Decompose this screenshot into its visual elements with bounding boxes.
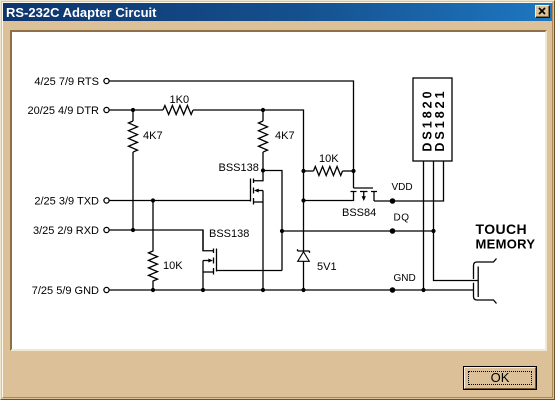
wire RTS to BSS84 gate <box>110 81 354 188</box>
svg-text:GND: GND <box>394 273 416 284</box>
transistor Q3 BSS84 <box>351 188 378 201</box>
svg-text:20/25 4/9 DTR: 20/25 4/9 DTR <box>27 105 99 117</box>
svg-text:BSS138: BSS138 <box>209 228 249 240</box>
wire left 4K7 top <box>132 110 134 121</box>
resistor R2 4K7 left <box>129 121 138 152</box>
node GND/zener <box>301 288 305 292</box>
transistor Q1 BSS138 upper <box>251 171 264 291</box>
node GND/pin1 <box>421 288 425 292</box>
wire right 4K7 top <box>262 110 264 121</box>
wire TXD to gate <box>110 200 251 202</box>
svg-text:2/25 3/9 TXD: 2/25 3/9 TXD <box>34 196 99 208</box>
node DQ dot <box>390 228 396 234</box>
touch memory outer contact <box>474 259 497 304</box>
terminal RTS <box>104 78 109 83</box>
terminal RXD <box>104 227 109 232</box>
close button <box>535 5 550 18</box>
node VDD dot <box>390 198 396 204</box>
svg-text:TOUCH: TOUCH <box>476 221 528 237</box>
svg-text:MEMORY: MEMORY <box>476 237 536 252</box>
svg-text:10K: 10K <box>163 260 183 272</box>
svg-text:3/25 2/9 RXD: 3/25 2/9 RXD <box>33 225 99 237</box>
node GND dot <box>390 287 396 293</box>
wire right 4K7 bottom <box>262 152 264 171</box>
wire upper drain to DQ vertical <box>263 171 282 271</box>
svg-text:BSS138: BSS138 <box>219 162 259 174</box>
node DQ/Q1 drain <box>280 229 284 233</box>
node DQ/pin2 <box>431 229 435 233</box>
svg-text:5V1: 5V1 <box>317 261 337 273</box>
svg-text:4K7: 4K7 <box>143 130 163 142</box>
wire RXD to lower BSS138 drain <box>110 230 214 251</box>
wire DQ horizontal <box>282 230 434 232</box>
node GND/10K <box>151 288 155 292</box>
resistor R3 4K7 right <box>259 121 268 152</box>
OK button <box>463 366 537 390</box>
wire 1K0 to corner <box>193 110 303 201</box>
terminal DTR <box>104 107 109 112</box>
svg-text:1K0: 1K0 <box>170 94 190 106</box>
wire VDD: BSS84 drain to DS1820 pin3 <box>374 162 444 202</box>
svg-text:BSS84: BSS84 <box>342 207 376 219</box>
zener D1 5V1 <box>298 201 310 291</box>
node GND/Q1 source <box>261 288 265 292</box>
node DTR/4K7R <box>261 108 265 112</box>
terminal GND <box>104 287 109 292</box>
white schematic panel <box>10 30 547 351</box>
node RXD/4K7L <box>131 228 135 232</box>
node 10K left <box>301 169 305 173</box>
resistor R4 10K top <box>314 167 343 176</box>
wire 10K top left <box>304 170 314 172</box>
pin 2 DQ of U1 <box>433 162 435 232</box>
svg-text:4K7: 4K7 <box>275 130 295 142</box>
pin 1 GND of U1 <box>423 162 425 291</box>
resistor R1 1K0 <box>163 106 193 115</box>
svg-text:DS1821: DS1821 <box>433 88 447 151</box>
svg-text:DQ: DQ <box>394 213 410 224</box>
node DTR/4K7L <box>131 108 135 112</box>
svg-text:7/25 5/9 GND: 7/25 5/9 GND <box>32 285 99 297</box>
wire left 4K7 bottom <box>132 152 134 230</box>
terminal TXD <box>104 198 109 203</box>
transistor Q2 BSS138 lower <box>203 230 217 290</box>
resistor R5 10K bottom <box>149 201 158 291</box>
wire DQ to touch memory centre <box>434 231 479 281</box>
node Q1 drain <box>261 168 265 172</box>
wire DTR left <box>110 109 164 111</box>
IC U1 DS1820/DS1821 body <box>413 78 452 161</box>
wire BSS84 source to DTR rail <box>304 200 354 202</box>
node GND/Q2 source <box>201 288 205 292</box>
wire 10K top right <box>343 170 354 172</box>
svg-text:VDD: VDD <box>392 182 413 193</box>
node TXD/10K <box>151 198 155 202</box>
touch memory inner contact <box>477 267 479 298</box>
node 10K right <box>351 169 355 173</box>
svg-text:4/25 7/9 RTS: 4/25 7/9 RTS <box>34 76 99 88</box>
wire GND rail <box>110 289 474 291</box>
wire lower gate to DQ vertical <box>217 270 283 272</box>
title bar <box>3 3 552 21</box>
node rail/BSS84 source <box>301 198 305 202</box>
svg-text:10K: 10K <box>319 153 339 165</box>
